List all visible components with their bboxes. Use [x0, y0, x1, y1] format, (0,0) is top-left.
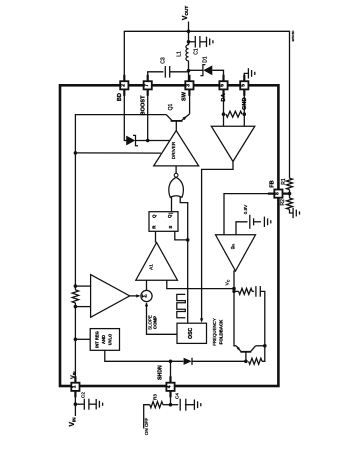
wire FB pin to divider [283, 193, 289, 195]
svg-text:DA: DA [221, 94, 227, 102]
svg-text:7: 7 [144, 84, 150, 87]
wire VOUT rail (top) [124, 30, 289, 32]
wire sum to comparator [146, 280, 148, 290]
junction rail/VOUT [187, 30, 191, 34]
wire error amp to reference [236, 222, 248, 235]
svg-text:AND: AND [101, 335, 106, 344]
wire D2 cathode to BOOST net / driver supply [135, 140, 169, 142]
svg-text:0.8V: 0.8V [243, 204, 248, 214]
diode D3 internal [184, 358, 192, 365]
svg-text:UVLO: UVLO [107, 333, 112, 345]
resistor Q2 base [249, 358, 262, 364]
wire to comp RC [234, 290, 239, 292]
wire latch Q to NOR input [171, 196, 173, 212]
wire SHDN pin external [170, 392, 172, 405]
wire DA pin into IC [223, 90, 225, 126]
pin 2 BD [123, 75, 125, 96]
svg-text:R1: R1 [281, 178, 287, 185]
pin 1 VIN [74, 376, 76, 397]
wire VOUT stub [188, 22, 190, 46]
wire BD pin into IC [124, 90, 126, 140]
junction C2 tap [74, 402, 78, 406]
wire frequency foldback [202, 162, 233, 322]
junction SHDN net [169, 360, 173, 364]
wire FB to error amp [224, 194, 283, 235]
wire GND pin to ground [244, 73, 248, 80]
svg-text:BOOST: BOOST [140, 95, 146, 115]
capacitor C3 [164, 66, 166, 78]
svg-text:Σ: Σ [143, 294, 149, 298]
svg-text:R2: R2 [280, 199, 286, 206]
ground (reference) [263, 217, 265, 227]
junction BOOST/D2 [146, 139, 150, 143]
wire rail to BD pin [123, 31, 125, 81]
svg-text:C4: C4 [174, 393, 179, 399]
wire C3 to SW node [170, 71, 189, 73]
comparator C1 (PWM) [136, 243, 178, 281]
wire S branch [175, 231, 188, 240]
svg-text:gm: gm [231, 244, 236, 250]
wire sense amp to sum [130, 295, 140, 297]
capacitor compensation [255, 286, 257, 297]
wire SHDN pin into IC [170, 361, 172, 383]
wire OSC to latch/NOR [187, 240, 189, 323]
resistor compensation [239, 288, 253, 294]
wire R3 to ON/OFF [144, 405, 150, 429]
wire to C4 [171, 404, 179, 406]
pin 3 SW [188, 75, 190, 96]
junction INT REG feed [74, 338, 78, 342]
svg-text:GND: GND [242, 98, 248, 110]
oscillator OSC [177, 323, 207, 343]
wire VC to comparator input [167, 280, 234, 288]
summing junction [141, 290, 152, 301]
wire to R3 [163, 404, 171, 406]
svg-text:C2: C2 [81, 392, 86, 398]
svg-text:3970 BD: 3970 BD [291, 31, 295, 42]
svg-text:R3: R3 [153, 394, 158, 400]
pin 8 FB [268, 193, 289, 195]
svg-text:C1: C1 [194, 48, 200, 55]
error amplifier A [216, 235, 256, 271]
svg-text:BD: BD [117, 93, 123, 101]
junction Q2 collector [263, 344, 267, 348]
junction sense+ [74, 284, 78, 288]
pin 5 GND [243, 75, 245, 96]
current sense amplifier [91, 275, 130, 318]
svg-text:Q: Q [167, 214, 172, 218]
wire C1 to gnd [200, 41, 207, 43]
svg-text:C3: C3 [160, 57, 166, 64]
wire to C2 [75, 403, 83, 405]
wire D1 cathode to SW node [189, 69, 204, 71]
svg-text:Q1: Q1 [168, 103, 174, 110]
ground (C4) [193, 400, 195, 410]
pin 4 SHDN [169, 376, 171, 397]
wire rail to R1 [289, 31, 291, 178]
svg-text:ON OFF: ON OFF [144, 418, 149, 436]
svg-text:SW: SW [181, 91, 187, 101]
junction Q2 base [244, 360, 248, 364]
svg-text:DRIVER: DRIVER [171, 141, 176, 159]
junction VC compensation [232, 290, 235, 293]
wire comparator to latch R [155, 231, 157, 242]
svg-text:SHDN: SHDN [157, 365, 163, 380]
svg-text:2: 2 [121, 84, 127, 87]
wire VIN rail [75, 115, 166, 290]
junction SHDN RC [169, 403, 173, 407]
svg-text:FREQUENCY: FREQUENCY [212, 318, 217, 346]
ground (R2) [292, 208, 294, 218]
svg-text:8: 8 [275, 192, 281, 195]
oscillator waveform symbol [177, 294, 186, 317]
catch diode current amplifier [211, 126, 255, 161]
diode D2 internal boost (Schottky) [126, 136, 135, 146]
wire rail to INT REG [75, 338, 90, 340]
wire sense- to amp [75, 306, 90, 308]
NOR gate [175, 166, 177, 173]
wire L1 to SW pin [188, 61, 190, 81]
junction GND sense [243, 112, 247, 116]
svg-text:3: 3 [186, 84, 192, 87]
svg-text:D1: D1 [202, 56, 208, 63]
transistor Q2 clamp [240, 351, 251, 353]
svg-text:S: S [168, 226, 173, 229]
svg-text:INT REG: INT REG [95, 331, 100, 348]
resistor R2 [287, 198, 293, 209]
svg-text:Q: Q [151, 214, 156, 218]
junction FB divider [288, 192, 292, 196]
wire reference to ground [254, 221, 261, 223]
svg-text:OSC: OSC [188, 327, 194, 338]
pin 6 DA [222, 75, 224, 96]
svg-text:FB: FB [270, 180, 276, 187]
svg-text:6: 6 [220, 84, 226, 87]
wire VC line [234, 271, 236, 346]
reference 0.8V battery [249, 215, 251, 229]
junction sense- [74, 305, 78, 309]
junction driver VIN supply [74, 151, 78, 155]
wire D3 to Q2 base [192, 360, 246, 362]
regulator block INT REG AND UVLO [90, 329, 119, 351]
capacitor C1 [194, 36, 196, 48]
svg-text:5: 5 [241, 84, 247, 87]
svg-text:4: 4 [167, 385, 173, 388]
resistor R3 [150, 402, 163, 408]
wire sense+ to amp [75, 285, 90, 287]
wire R2 to ground [290, 209, 293, 213]
wire to C1 [189, 41, 195, 43]
svg-text:1: 1 [72, 385, 78, 388]
junction C1 tap [187, 40, 191, 44]
driver amplifier [154, 131, 199, 166]
ground (C1) [206, 37, 208, 47]
junction SW/D1/C3 [187, 69, 191, 73]
svg-text:L1: L1 [177, 51, 183, 57]
wire UVLO to clamp net [105, 350, 184, 361]
resistor current sense [72, 290, 78, 303]
wire BOOST pin into IC [147, 90, 149, 140]
svg-text:COMP: COMP [153, 316, 158, 329]
capacitor C2 [83, 399, 85, 410]
ground (GND pin) [247, 68, 249, 78]
wire rail to driver supply edge [75, 152, 160, 154]
wire BOOST to C3 [148, 72, 164, 81]
wire compensation return [260, 291, 265, 361]
IC body outline [60, 85, 278, 386]
capacitor C4 [179, 399, 181, 411]
svg-text:A1: A1 [149, 264, 154, 270]
inductor L1 [186, 45, 189, 61]
pin 7 BOOST [147, 75, 149, 96]
resistor R1 [287, 178, 293, 189]
wire VIN pin external [74, 392, 76, 416]
SR latch U2 [149, 212, 178, 232]
svg-text:FOLDBACK: FOLDBACK [218, 319, 223, 344]
wire slope comp [147, 303, 178, 334]
resistor diode sense [226, 111, 242, 117]
diode D1 (Schottky) [203, 65, 212, 75]
wire OSC to NOR input [180, 196, 188, 240]
junction OSC net [186, 238, 190, 242]
junction DA sense [222, 112, 226, 116]
wire DA pin to D1 anode [212, 70, 223, 80]
wire GND pin into IC [243, 90, 245, 126]
transistor Q1 [171, 120, 183, 122]
junction VC to comparator [232, 287, 236, 291]
ground (C2) [95, 399, 97, 409]
